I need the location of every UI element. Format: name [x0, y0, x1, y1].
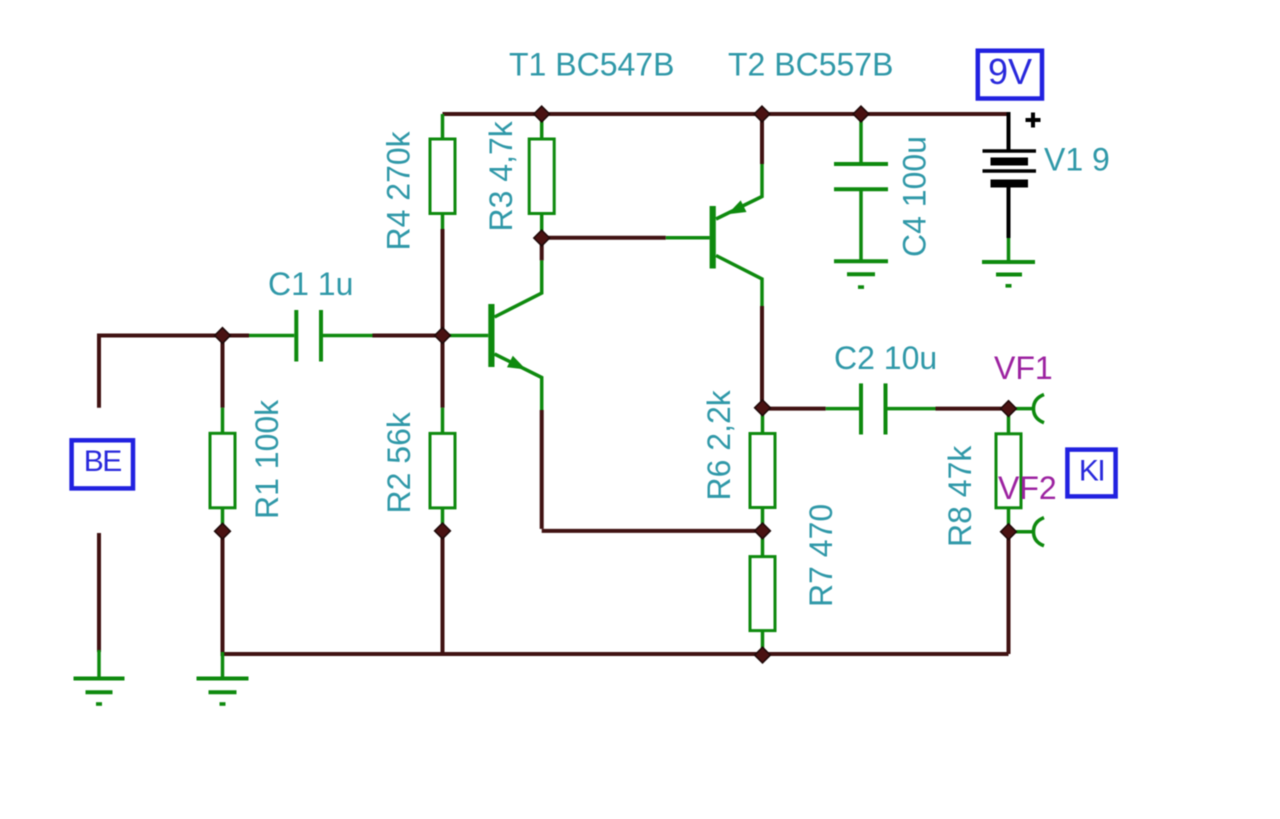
- node junction top T2: [754, 106, 770, 122]
- node junction top R3: [534, 106, 550, 122]
- node junction R7 bottom rail: [755, 647, 771, 663]
- wire BE to ground: [97, 533, 101, 652]
- wire base node horizontal left: [99, 336, 223, 338]
- node junction R1 bottom: [215, 523, 231, 539]
- wire R1 bottom to bottom rail: [221, 531, 225, 654]
- wire T1 emitter down: [540, 410, 544, 529]
- resistor R3: [529, 115, 554, 234]
- resistor R8: [996, 409, 1021, 532]
- battery V1: [983, 112, 1037, 262]
- node junction T2 collector / R6 / C2: [755, 400, 771, 416]
- transistor T2 BC557B: [666, 164, 762, 306]
- node junction R8 bottom / VF2: [1001, 524, 1017, 540]
- resistor R4: [430, 114, 455, 229]
- node KI port box: [1067, 450, 1115, 497]
- wire base junction down to R2: [441, 336, 445, 408]
- svg-text:T1 BC547B: T1 BC547B: [509, 47, 674, 83]
- svg-text:R2 56k: R2 56k: [381, 411, 417, 513]
- wire C2 right dark segment: [936, 407, 1009, 411]
- svg-text:R4 270k: R4 270k: [381, 130, 417, 250]
- svg-text:R6 2,2k: R6 2,2k: [701, 389, 737, 500]
- svg-text:R1 100k: R1 100k: [249, 399, 285, 519]
- wire R3 junction to T2 base: [542, 236, 666, 240]
- capacitor C1: [249, 310, 373, 362]
- wire R4 bottom to base junction: [441, 229, 445, 336]
- svg-text:V1 9: V1 9: [1044, 142, 1110, 178]
- wire R2 bottom drop: [441, 531, 445, 652]
- svg-text:9V: 9V: [988, 51, 1032, 92]
- svg-text:VF1: VF1: [994, 350, 1053, 386]
- ground below BE branch: [74, 650, 125, 706]
- wire T1 emitter to R6 junction: [542, 529, 763, 533]
- wire R8 bottom drop to bottom rail: [1007, 532, 1011, 654]
- battery plus sign: [1026, 113, 1041, 128]
- node junction R3 bottom / T2 base: [534, 230, 550, 246]
- svg-text:KI: KI: [1079, 455, 1104, 488]
- wire T2 emitter top dark segment: [760, 114, 764, 164]
- transistor T1 BC547B: [449, 260, 542, 410]
- svg-text:R8 47k: R8 47k: [942, 445, 978, 547]
- wire top supply rail: [443, 112, 1009, 116]
- node junction T1 base: [435, 328, 451, 344]
- svg-text:R7 470: R7 470: [803, 504, 839, 607]
- wire R1 top drop: [221, 336, 225, 408]
- wire T2 collector down: [760, 306, 764, 408]
- resistor R6: [750, 409, 775, 531]
- connector VF1: [1009, 395, 1045, 423]
- svg-text:T2 BC557B: T2 BC557B: [728, 47, 893, 83]
- resistor R7: [750, 531, 775, 655]
- svg-text:BE: BE: [84, 445, 122, 478]
- svg-text:C2 10u: C2 10u: [834, 340, 937, 376]
- wire C2 left dark segment: [763, 407, 826, 411]
- node 9V supply box: [978, 51, 1042, 99]
- node junction R6 / R7: [755, 523, 771, 539]
- ground below R1 branch: [197, 652, 249, 706]
- svg-text:C1 1u: C1 1u: [268, 266, 353, 302]
- capacitor C4: [834, 115, 888, 261]
- node BE port box: [72, 440, 133, 488]
- wire junction to C1 left: [223, 334, 250, 338]
- node junction top C4: [853, 106, 869, 122]
- svg-text:C4 100u: C4 100u: [897, 136, 933, 257]
- svg-text:VF2: VF2: [998, 470, 1057, 506]
- ground below C4: [834, 261, 888, 289]
- node junction input left: [215, 328, 231, 344]
- wire C1 right to base junction: [372, 334, 442, 338]
- node junction C2 / R8 / VF1: [1001, 401, 1017, 417]
- capacitor C2: [826, 383, 936, 434]
- resistor R1: [210, 408, 235, 531]
- resistor R2: [430, 408, 455, 531]
- wire bottom ground rail: [221, 652, 1009, 656]
- ground below battery: [982, 262, 1035, 288]
- wire left drop to BE: [97, 336, 101, 408]
- wire T1 collector dark segment: [540, 238, 544, 260]
- svg-text:R3 4,7k: R3 4,7k: [483, 120, 519, 231]
- connector VF2: [1009, 518, 1045, 546]
- node junction R2 bottom: [435, 523, 451, 539]
